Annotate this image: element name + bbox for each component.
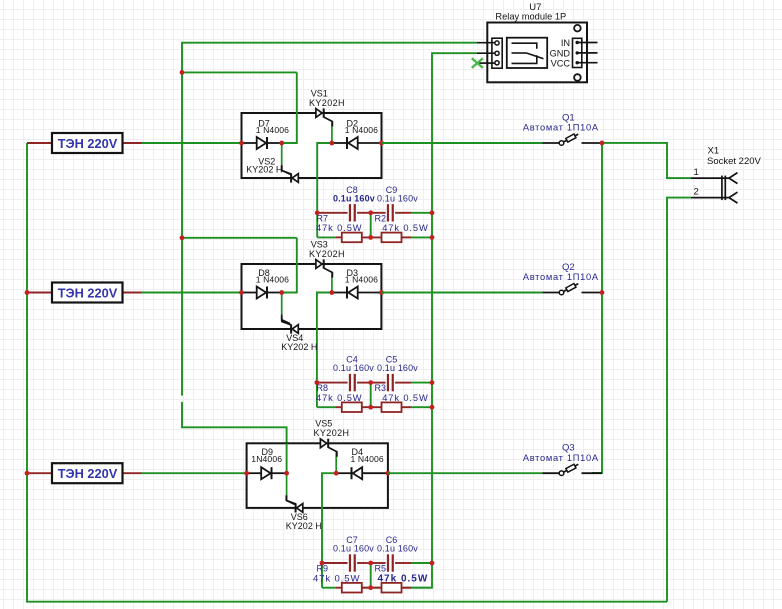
thyristor VS4 gate wire: [281, 293, 283, 315]
relay contact connector: [492, 38, 502, 68]
junction gate right: [330, 141, 335, 146]
svg-text:R2: R2: [375, 213, 387, 223]
svg-text:47k 0.5W: 47k 0.5W: [316, 393, 362, 403]
capacitor C5: [377, 355, 418, 392]
relay mounting hole bottom: [574, 74, 581, 81]
wire cap to bus: [411, 562, 432, 564]
socket body bars: [722, 176, 725, 201]
wire gate feed: [282, 72, 297, 143]
breaker Q1 Автомат 1П10А: [523, 112, 602, 145]
diode D4 lead right: [362, 472, 388, 474]
svg-text:KY202 H: KY202 H: [286, 521, 322, 531]
svg-text:1N4006: 1N4006: [251, 454, 282, 464]
svg-text:VS3: VS3: [311, 239, 328, 249]
wire left neutral bus: [27, 143, 667, 602]
diode D7: [256, 119, 289, 150]
thyristor VS2: [282, 166, 299, 183]
svg-text:2: 2: [694, 186, 699, 197]
diode D8 to gate node: [267, 292, 282, 294]
svg-text:VCC: VCC: [551, 58, 571, 68]
junction gate right: [334, 471, 339, 476]
resistor R2 leads: [402, 236, 412, 238]
junction gate left: [284, 471, 289, 476]
wire relay contact1 feed top: [182, 43, 477, 396]
no-connect X on relay pin3: [472, 58, 483, 68]
thyristor VS1 gate wire: [331, 122, 333, 143]
svg-text:Автомат 1П10А: Автомат 1П10А: [523, 123, 599, 133]
junction snubber cap row: [320, 561, 325, 566]
thyristor VS2 gate wire: [281, 143, 283, 165]
breaker Q2 Автомат 1П10А: [523, 262, 602, 295]
junction snubber2 right resistor: [430, 405, 435, 410]
diode D2 lead: [332, 142, 347, 144]
diode D3 lead: [332, 292, 347, 294]
junction snubber1 right resistor: [430, 235, 435, 240]
wire socket pin2 riser: [667, 198, 691, 602]
capacitor C9 leads: [371, 212, 386, 214]
diode D2 lead right: [358, 142, 382, 144]
wire to snubber: [317, 143, 332, 213]
svg-text:VS1: VS1: [311, 88, 328, 98]
heater ТЭН 220V channel 1: [27, 133, 142, 153]
capacitor C8: [333, 185, 375, 222]
thyristor VS6: [286, 495, 303, 512]
junction left bus channel3: [25, 471, 30, 476]
junction bridge right: [379, 141, 384, 146]
svg-text:1 N4006: 1 N4006: [345, 125, 378, 135]
junction bridge left: [244, 471, 249, 476]
wire cap to bus: [411, 382, 432, 384]
svg-text:0.1u 160v: 0.1u 160v: [333, 363, 374, 373]
svg-text:0.1u 160v: 0.1u 160v: [377, 193, 418, 203]
wire heater to bridge: [142, 142, 242, 144]
svg-text:IN: IN: [561, 38, 570, 48]
junction left bus channel2: [25, 290, 30, 295]
socket X1 Socket 220V: [707, 146, 762, 167]
resistor R7 leads: [317, 236, 336, 238]
svg-text:0.1u 160v: 0.1u 160v: [333, 193, 375, 203]
junction snubber resistor row: [368, 405, 373, 410]
wire relay contact2 to snubber bus: [342, 53, 477, 588]
diode D4 lead: [336, 472, 351, 474]
wire gate feed horizontal: [182, 71, 297, 73]
svg-text:KY202H: KY202H: [314, 428, 350, 438]
capacitor C4 leads: [317, 382, 348, 384]
wire bridge to breaker Q2: [381, 292, 542, 294]
junction Q2 output: [600, 290, 605, 295]
wire snubber left vertical: [321, 563, 323, 588]
thyristor VS3 gate wire: [331, 273, 333, 293]
svg-text:1 N4006: 1 N4006: [351, 454, 384, 464]
wire relay feed lower segment: [182, 402, 287, 473]
wire Q1 to socket pin1: [602, 143, 691, 178]
svg-text:1 N4006: 1 N4006: [345, 275, 378, 285]
relay mounting hole top: [574, 25, 581, 32]
thyristor VS4: [282, 317, 299, 334]
svg-text:ТЭН 220V: ТЭН 220V: [58, 285, 118, 300]
thyristor bridge loop channel 3: [247, 443, 388, 508]
svg-text:47k 0.5W: 47k 0.5W: [382, 223, 428, 233]
relay pin VCC: [576, 61, 598, 64]
svg-text:47k 0.5W: 47k 0.5W: [378, 574, 429, 585]
resistor R8 leads: [317, 406, 336, 408]
svg-text:0.1u 160v: 0.1u 160v: [377, 363, 418, 373]
junction snubber cap row: [315, 380, 320, 385]
diode D7 to gate node: [267, 142, 282, 144]
socket pin 1: [691, 167, 738, 184]
wire bridge to breaker Q1: [382, 142, 543, 144]
svg-text:1 N4006: 1 N4006: [256, 275, 289, 285]
wire cap to bus: [411, 212, 432, 214]
thyristor VS3: [316, 259, 333, 277]
diode D7 lead: [242, 142, 257, 144]
resistor R3: [375, 383, 429, 412]
breaker Q3 Автомат 1П10А: [523, 443, 602, 476]
junction snubber resistor row: [368, 585, 373, 590]
wire snubber mid vertical: [370, 383, 372, 408]
diode D9: [251, 447, 282, 479]
diode D4: [351, 447, 384, 479]
socket pin 2: [691, 186, 738, 203]
svg-text:1 N4006: 1 N4006: [256, 125, 289, 135]
resistor R5: [375, 564, 429, 593]
capacitor C7: [333, 535, 374, 572]
relay module U7: [487, 2, 587, 82]
wire snubber mid vertical: [370, 213, 372, 238]
relay pin stubs left: [477, 43, 495, 63]
svg-text:47k 0.5W: 47k 0.5W: [316, 223, 362, 233]
capacitor C8 leads: [317, 212, 347, 214]
diode D8: [256, 268, 289, 299]
resistor R2: [375, 213, 429, 242]
svg-text:GND: GND: [550, 48, 571, 58]
thyristor VS5 gate wire: [335, 452, 337, 473]
wire snubber left vertical: [316, 383, 318, 408]
svg-text:KY202H: KY202H: [309, 249, 345, 259]
wire snubber mid vertical: [370, 563, 372, 588]
junction feed channel2: [180, 235, 185, 240]
diode D9 lead: [247, 472, 262, 474]
wire gate feed horizontal: [182, 237, 297, 239]
resistor R9 leads: [322, 587, 336, 589]
thyristor bridge loop channel 1: [242, 113, 382, 178]
wire to snubber: [322, 473, 336, 563]
wire snubber left vertical: [316, 213, 318, 238]
svg-text:KY202 H: KY202 H: [281, 342, 317, 352]
thyristor VS1: [316, 108, 333, 126]
svg-text:KY202H: KY202H: [309, 98, 345, 108]
svg-text:47k 0.5W: 47k 0.5W: [382, 393, 428, 403]
resistor R3 leads: [402, 406, 412, 408]
wire heater to bridge: [142, 292, 242, 294]
svg-text:47k 0.5W: 47k 0.5W: [313, 574, 360, 585]
capacitor C6: [377, 535, 418, 572]
wire heater to bridge: [142, 472, 247, 474]
svg-text:ТЭН 220V: ТЭН 220V: [58, 466, 118, 481]
resistor R5 leads: [402, 587, 412, 589]
junction snubber resistor row: [368, 235, 373, 240]
thyristor VS5: [320, 439, 337, 457]
wire to snubber: [317, 293, 332, 383]
junction bridge left: [239, 290, 244, 295]
svg-text:Автомат 1П10А: Автомат 1П10А: [523, 453, 599, 463]
diode D2: [345, 119, 378, 150]
svg-text:Автомат 1П10А: Автомат 1П10А: [523, 272, 599, 282]
junction bridge right: [386, 471, 391, 476]
resistor R7: [316, 213, 362, 242]
capacitor C9: [377, 185, 418, 222]
diode D3 lead right: [358, 292, 382, 294]
capacitor C6 leads: [371, 562, 386, 564]
relay pin GND: [576, 51, 598, 54]
svg-text:Socket 220V: Socket 220V: [707, 156, 762, 167]
svg-text:VS5: VS5: [315, 419, 332, 429]
junction Q1 output: [600, 141, 605, 146]
svg-text:R3: R3: [375, 383, 387, 393]
junction bridge right: [379, 290, 384, 295]
svg-text:Relay module 1P: Relay module 1P: [495, 12, 566, 22]
capacitor C4: [333, 355, 374, 392]
resistor R9: [313, 564, 362, 593]
junction bridge left: [239, 141, 244, 146]
diode D3: [345, 268, 378, 299]
junction snubber cap row: [315, 210, 320, 215]
wire gate feed: [282, 238, 297, 293]
junction gate right: [330, 290, 335, 295]
diode D9 to gate node: [272, 472, 287, 474]
relay coil box: [507, 38, 547, 68]
heater ТЭН 220V channel 2: [27, 283, 142, 303]
diode D8 lead: [242, 292, 257, 294]
junction gate left: [279, 141, 284, 146]
svg-text:KY202 H: KY202 H: [246, 165, 282, 175]
capacitor C5 leads: [371, 382, 386, 384]
svg-text:ТЭН 220V: ТЭН 220V: [58, 136, 118, 151]
wire gate feed inside box: [286, 443, 288, 473]
relay pin IN: [576, 41, 598, 44]
capacitor C7 leads: [322, 562, 348, 564]
wire breaker output bus: [592, 143, 602, 473]
svg-text:0.1u 160v: 0.1u 160v: [333, 544, 374, 554]
thyristor bridge loop channel 2: [242, 264, 382, 329]
heater ТЭН 220V channel 3: [27, 463, 142, 483]
svg-text:R5: R5: [375, 564, 387, 574]
relay contact symbol: [512, 43, 544, 63]
thyristor VS6 gate wire: [286, 473, 288, 495]
svg-text:0.1u 160v: 0.1u 160v: [377, 544, 418, 554]
junction feed channel1: [180, 70, 185, 75]
wire bridge to breaker Q3: [388, 472, 543, 474]
resistor R8: [316, 383, 362, 412]
svg-text:R8: R8: [317, 383, 329, 393]
junction gate left: [279, 290, 284, 295]
relay header IN GND VCC: [550, 38, 582, 68]
svg-text:1: 1: [694, 167, 699, 178]
